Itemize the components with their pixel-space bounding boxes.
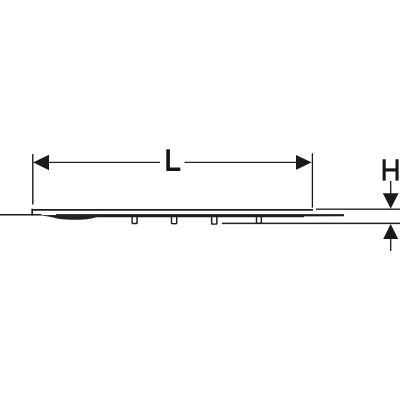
- dimension line L right segment: [185, 161, 298, 163]
- dimension line H upper: [390, 181, 392, 194]
- label H: [383, 159, 399, 180]
- drain channel: [42, 215, 102, 220]
- label L: [166, 149, 180, 171]
- arrowhead L left: [33, 155, 49, 171]
- dimension line L left segment: [47, 161, 160, 163]
- extension line L left: [32, 154, 34, 205]
- extension line L right: [311, 153, 313, 207]
- reference line lower right: [222, 222, 400, 224]
- dimension line H lower: [390, 239, 392, 251]
- clip 2: [171, 217, 178, 225]
- arrowhead L right: [296, 155, 312, 170]
- clip 3: [211, 217, 218, 225]
- reference line upper right: [316, 208, 400, 210]
- arrowhead H down: [383, 193, 399, 208]
- tray top surface: [32, 209, 313, 211]
- clip 1: [131, 217, 137, 224]
- tray left edge: [31, 209, 33, 216]
- tray underside band: [56, 214, 344, 217]
- clip 4: [256, 217, 262, 224]
- floor line left: [0, 214, 42, 216]
- arrowhead H up: [383, 224, 398, 239]
